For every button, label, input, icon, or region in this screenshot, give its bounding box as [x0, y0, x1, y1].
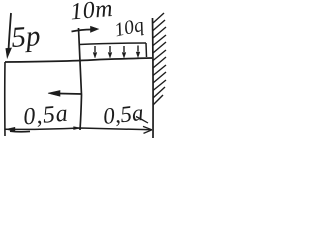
pen smudge under left arrowhead [10, 130, 30, 133]
beam (top horizontal member) [5, 58, 152, 62]
moment arm 10m arrow [72, 26, 99, 32]
wall hatching [153, 13, 166, 105]
load arrow 1 [93, 46, 97, 58]
horizontal force arrow [48, 91, 82, 97]
wall line [152, 18, 155, 138]
left extension line [4, 62, 6, 136]
svg-text:5p: 5p [10, 20, 41, 54]
load end tick [145, 43, 148, 57]
column (vertical member) [79, 28, 82, 130]
svg-text:10m: 10m [69, 0, 114, 25]
svg-text:0,5a: 0,5a [102, 100, 145, 129]
load arrow 4 [136, 46, 140, 58]
load arrow 2 [108, 46, 112, 58]
dimension arrowhead middle [74, 127, 81, 130]
dimension arrowhead right [143, 126, 152, 133]
dimension line [5, 128, 152, 130]
distributed load line [79, 43, 146, 45]
dimension arrowhead left [6, 127, 16, 131]
load arrow 3 [122, 46, 126, 58]
svg-text:0,5a: 0,5a [22, 101, 69, 131]
force 5p arrow [6, 13, 12, 58]
cursive tail of right a [136, 117, 148, 124]
